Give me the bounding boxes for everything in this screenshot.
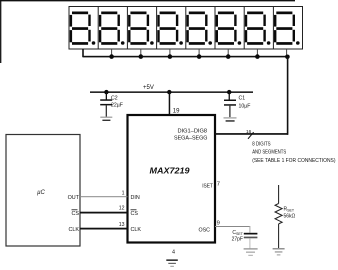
svg-text:RSET: RSET bbox=[284, 207, 295, 213]
svg-text:56kΩ: 56kΩ bbox=[284, 214, 296, 220]
svg-text:1: 1 bbox=[122, 191, 125, 197]
svg-text:µC: µC bbox=[37, 190, 45, 196]
svg-text:+5V: +5V bbox=[143, 85, 154, 91]
svg-text:OSC: OSC bbox=[199, 227, 211, 233]
svg-text:19: 19 bbox=[173, 108, 180, 114]
svg-text:CLK: CLK bbox=[69, 227, 80, 233]
svg-text:OUT: OUT bbox=[68, 195, 80, 201]
svg-text:10µF: 10µF bbox=[239, 104, 251, 110]
svg-text:DIG1–DIG8: DIG1–DIG8 bbox=[178, 129, 208, 135]
svg-text:(SEE TABLE 1 FOR CONNECTIONS): (SEE TABLE 1 FOR CONNECTIONS) bbox=[252, 158, 335, 164]
svg-text:SEGA–SEGG: SEGA–SEGG bbox=[174, 135, 208, 141]
svg-text:7: 7 bbox=[217, 182, 220, 188]
svg-text:22µF: 22µF bbox=[111, 103, 123, 109]
svg-text:8 DIGITS: 8 DIGITS bbox=[252, 141, 270, 147]
svg-text:4: 4 bbox=[172, 250, 175, 256]
svg-text:CSET: CSET bbox=[232, 230, 243, 236]
svg-text:27pF: 27pF bbox=[232, 237, 243, 243]
svg-text:16: 16 bbox=[246, 129, 252, 135]
svg-text:AND SEGMENTS: AND SEGMENTS bbox=[252, 150, 286, 156]
svg-text:12: 12 bbox=[119, 206, 125, 212]
svg-text:CLK: CLK bbox=[131, 227, 142, 233]
svg-text:MAX7219: MAX7219 bbox=[150, 165, 190, 175]
svg-text:13: 13 bbox=[119, 222, 125, 228]
svg-text:DIN: DIN bbox=[131, 195, 140, 201]
svg-text:C1: C1 bbox=[239, 96, 246, 102]
svg-text:C2: C2 bbox=[111, 96, 118, 102]
svg-text:CS: CS bbox=[131, 211, 139, 217]
svg-text:CS: CS bbox=[72, 211, 80, 217]
svg-text:ISET: ISET bbox=[202, 184, 213, 190]
svg-text:9: 9 bbox=[217, 221, 220, 227]
